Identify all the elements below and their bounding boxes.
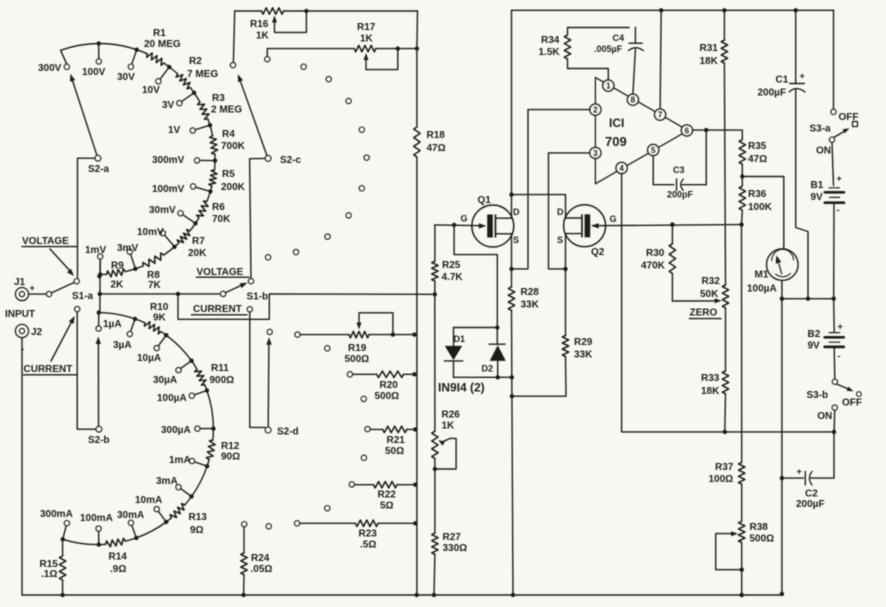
svg-text:OFF: OFF [842,398,862,409]
svg-text:1: 1 [606,82,611,91]
svg-text:R18: R18 [427,130,446,141]
svg-text:OFF: OFF [839,112,859,123]
wire Q1 drain to V+ rail [511,10,513,218]
label resistor R1 [144,28,181,50]
svg-text:R33: R33 [701,373,720,384]
switch S3-a [810,10,859,156]
svg-text:VOLTAGE: VOLTAGE [197,267,244,278]
wire V+ top rail [512,8,834,12]
svg-text:R16: R16 [250,19,269,30]
node / switch contact 10V [142,65,172,96]
resistor R25 4.7K [432,225,464,294]
node / switch contact 300µA [161,425,216,436]
svg-text:50K: 50K [700,289,719,300]
node / switch contact 300mV [152,155,217,166]
svg-text:1V: 1V [168,125,181,136]
svg-text:2K: 2K [111,280,125,291]
wire IC pin 1 to R34 [568,59,609,80]
svg-text:G: G [461,214,468,224]
label IN914 (2) [438,381,485,395]
wire Q1 source [509,234,513,271]
svg-text:R26: R26 [442,410,461,421]
rotary switch S2-b wiper [88,337,110,447]
svg-text:20K: 20K [188,248,207,259]
svg-text:R36: R36 [748,189,767,200]
svg-text:R28: R28 [521,287,540,298]
label CURRENT right [192,304,248,315]
resistor R38 500 ohm pot [716,521,775,597]
resistor R15 .1 ohm [40,539,66,595]
svg-text:-: - [838,351,841,361]
wire Q2 source [563,234,567,271]
svg-text:R9: R9 [111,261,124,272]
wire IC pin 2 [528,109,590,111]
svg-text:R3: R3 [212,93,225,104]
wire Q1 gate to diode clamp [454,225,499,330]
svg-text:R22: R22 [378,490,397,501]
svg-text:10µA: 10µA [137,353,161,364]
svg-text:47Ω: 47Ω [748,154,767,165]
svg-text:R29: R29 [574,337,593,348]
svg-text:R23: R23 [359,529,378,540]
svg-text:R32: R32 [702,276,721,287]
wire main input bus [100,292,437,320]
IC1 pin 5 [648,144,659,155]
resistor R16 1K pot [250,8,309,42]
resistor R22 5 ohm [355,482,418,512]
rotary switch S2-c contact arc [230,57,369,261]
svg-text:R14: R14 [109,552,128,563]
switch S1-a [46,279,93,312]
svg-text:R6: R6 [212,202,225,213]
wire S1-a current contact to S2-b [77,312,96,429]
svg-text:IN9I4 (2): IN9I4 (2) [438,381,485,395]
resistor R28 33K [508,269,539,377]
svg-text:R2: R2 [189,56,202,67]
svg-text:10mA: 10mA [135,495,162,506]
transistor Q2 [557,205,617,258]
svg-text:6: 6 [685,126,690,135]
svg-text:500Ω: 500Ω [345,354,370,365]
svg-text:10mV: 10mV [137,227,164,238]
svg-text:470K: 470K [641,261,666,272]
resistor R35 47 ohm [739,130,767,179]
svg-text:R17: R17 [357,22,376,33]
svg-text:700K: 700K [221,141,246,152]
svg-text:S: S [513,235,519,245]
resistor R18 47 ohm [414,127,446,157]
svg-text:R11: R11 [211,363,229,374]
wire S2-c 100V contact to R17 line [266,49,268,57]
wire S2-a to S1-a voltage contact [78,158,95,278]
svg-text:ON: ON [817,411,832,422]
node / switch contact 1µA [96,310,122,331]
svg-text:9V: 9V [811,192,824,203]
svg-text:300mV: 300mV [152,155,185,166]
svg-text:-: - [837,205,840,215]
svg-text:900Ω: 900Ω [210,375,235,386]
wire S2-c 300V contact to R16 line [233,11,234,62]
svg-text:500Ω: 500Ω [375,391,400,402]
svg-text:.9Ω: .9Ω [110,564,126,575]
svg-text:Q1: Q1 [478,195,492,206]
svg-text:5: 5 [651,146,656,155]
svg-text:D2: D2 [482,364,494,374]
node / switch contact 100mA [80,513,113,547]
svg-text:S: S [557,235,563,245]
svg-text:R5: R5 [222,169,235,180]
svg-text:1K: 1K [442,421,456,432]
rotary switch S2-d wiper [265,337,299,437]
meter M1 100uA [747,249,798,295]
svg-text:R10: R10 [150,302,169,313]
resistor R17 1K pot [354,22,398,70]
resistor R21 50 ohm [370,426,417,457]
node / switch contact 10mV [137,227,177,249]
label resistor R2 [187,56,218,80]
rotary switch S2-c wiper [238,74,302,166]
battery B1 9V [811,143,844,299]
wire IC pin 7 to V+ rail [659,8,663,109]
svg-text:R7: R7 [192,236,205,247]
svg-text:300V: 300V [38,63,62,74]
svg-text:VOLTAGE: VOLTAGE [22,236,69,247]
svg-text:100µA: 100µA [747,284,777,295]
node / switch contact 300V [38,50,70,74]
resistor R34 1.5K [539,28,630,59]
node / switch contact 3µA [113,317,137,351]
label resistor R6 [212,202,231,225]
wire top attenuator line [235,10,418,12]
svg-text:R21: R21 [387,435,406,446]
svg-text:300µA: 300µA [161,425,191,436]
svg-text:ICI: ICI [609,116,624,130]
svg-text:+: + [800,71,805,81]
svg-text:.5Ω: .5Ω [360,540,376,551]
svg-text:C4: C4 [613,33,625,43]
IC1 pin 7 [654,109,665,120]
current shunt arc R10-R14 [63,313,216,547]
svg-text:90Ω: 90Ω [221,452,240,463]
wire IC pin 5 to C3 [653,156,674,185]
node / switch contact 100mV [152,184,213,195]
svg-text:S2-d: S2-d [277,427,299,438]
svg-text:9K: 9K [153,313,167,324]
svg-text:S3-a: S3-a [810,124,832,135]
svg-text:C2: C2 [805,489,818,500]
svg-text:70K: 70K [212,214,231,225]
svg-text:S2-a: S2-a [88,164,110,175]
wire Q1 source to IC pin 2 [512,110,529,269]
wire S1-b current contact to S2-d [250,312,265,427]
node / switch contact 30mV [149,205,198,226]
wire R28 line to bottom rail [510,377,516,597]
svg-text:200µF: 200µF [796,499,825,510]
svg-text:709: 709 [605,134,627,149]
label resistor R10 [150,302,169,324]
capacitor C3 200pF [667,165,706,200]
svg-text:R4: R4 [222,129,235,140]
svg-text:300mA: 300mA [40,509,73,520]
node / switch contact 1mV [85,245,106,277]
resistor R30 470K [641,222,676,301]
capacitor C2 200uF [780,432,834,510]
svg-text:330Ω: 330Ω [443,543,468,554]
label resistor R9 [111,261,125,291]
resistor R27 330 ohm [432,469,468,595]
label resistor R4 [221,129,246,152]
capacitor C1 200uF [758,10,809,298]
svg-text:D: D [557,207,564,217]
svg-text:R38: R38 [750,522,769,533]
wire diode bottoms to R28 line [454,375,515,379]
svg-text:R13: R13 [189,512,208,523]
resistor R29 33K [512,269,593,396]
wire Q1 gate [435,223,486,229]
resistor R31 18K [700,8,728,285]
svg-text:INPUT: INPUT [5,309,35,320]
svg-text:100µA: 100µA [157,393,187,404]
wire Q2 gate [591,222,744,228]
resistor R33 18K [701,308,729,432]
jack J2 [15,324,42,355]
jack J1 [14,277,35,301]
svg-text:S3-b: S3-b [807,390,829,401]
resistor R23 .5 ohm [300,520,418,550]
node / switch contact 100µA [157,388,209,404]
svg-text:30mV: 30mV [149,205,176,216]
svg-text:7K: 7K [148,280,162,291]
rotary switch S2-d contact arc [242,329,371,529]
wire R17 line [267,46,419,50]
IC1 pin 2 [590,104,601,115]
svg-text:1mV: 1mV [85,245,106,256]
battery B2 9V [808,299,844,379]
svg-text:30V: 30V [117,72,135,83]
wire M1 minus and mid rail [780,281,836,594]
svg-text:100mA: 100mA [80,513,113,524]
wire meter feed [742,177,784,249]
svg-text:R25: R25 [442,260,461,271]
node / switch contact 30µA [153,359,194,387]
resistor R20 500 ohm [353,371,417,402]
svg-text:M1: M1 [755,270,769,281]
svg-text:18K: 18K [701,386,720,397]
svg-text:S2-b: S2-b [88,435,110,446]
svg-text:CURRENT: CURRENT [193,304,242,315]
svg-text:G: G [610,214,617,224]
svg-text:J1: J1 [14,277,26,288]
svg-text:2 MEG: 2 MEG [211,105,242,116]
node / switch contact 10mA [135,495,168,524]
transistor Q1 [461,195,521,247]
svg-text:200µF: 200µF [758,88,787,99]
svg-text:D: D [513,207,520,217]
svg-text:+: + [30,283,35,293]
wire IC pin 4 to negative rail [622,174,837,434]
svg-text:1K: 1K [256,31,270,42]
svg-text:S2-c: S2-c [280,155,302,166]
label INPUT [5,309,35,320]
svg-text:2: 2 [593,106,598,115]
svg-text:CURRENT: CURRENT [24,364,73,375]
svg-text:33K: 33K [521,300,540,311]
label CURRENT left with arrow [24,316,78,375]
svg-text:S1-b: S1-b [247,292,269,303]
svg-text:R1: R1 [153,28,166,39]
diode D1 [444,328,497,378]
svg-text:4.7K: 4.7K [442,272,464,283]
node / switch contact 3V [162,91,196,111]
svg-text:9Ω: 9Ω [190,525,204,536]
svg-text:1µA: 1µA [103,319,122,330]
switch S3-b [807,379,863,430]
capacitor C4 .005uF [594,28,643,95]
label resistor R13 [189,512,208,536]
svg-text:1K: 1K [360,34,374,45]
wire middle rail [416,11,419,595]
svg-text:30µA: 30µA [153,375,177,386]
node / switch contact 3mV [117,243,138,271]
resistor R26 1K pot [432,294,461,471]
svg-text:S1-a: S1-a [72,291,94,302]
IC1 pin 3 [590,147,601,158]
svg-text:B2: B2 [808,329,821,340]
IC1 pin 6 [681,125,692,136]
label resistor R7 [188,236,207,259]
svg-text:R20: R20 [380,380,399,391]
svg-text:J2: J2 [31,327,43,338]
wire J2 to bottom rail [21,338,23,595]
svg-text:8: 8 [631,96,636,105]
switch S1-b [220,279,268,312]
svg-text:C3: C3 [673,165,685,175]
svg-text:3V: 3V [162,100,175,111]
resistor R37 100 ohm [709,462,745,521]
svg-text:7 MEG: 7 MEG [187,69,218,80]
svg-text:30mA: 30mA [117,510,144,521]
label resistor R11 [210,363,235,386]
svg-text:R37: R37 [715,462,734,473]
wire J1 to S1-a pole [29,293,47,295]
node / switch contact 100V [82,41,106,78]
wire S1-b voltage contact to S2-c wiper [250,158,266,278]
svg-text:3mA: 3mA [156,476,178,487]
svg-text:50Ω: 50Ω [385,446,404,457]
IC1 pin 1 [603,80,614,91]
svg-text:C1: C1 [776,75,789,86]
svg-text:3mV: 3mV [117,243,138,254]
svg-text:20 MEG: 20 MEG [144,39,181,50]
svg-text:R12: R12 [221,441,240,452]
svg-text:D1: D1 [454,334,466,344]
node / switch contact 10µA [137,333,168,364]
label resistor R14 [109,552,128,576]
svg-text:+: + [838,322,843,332]
node / switch contact 300mA [40,509,73,542]
label resistor R8 [147,270,162,291]
svg-text:10V: 10V [142,85,160,96]
wire IC pin 6 output [693,129,743,131]
svg-text:+: + [837,174,842,184]
resistor R36 100K [739,177,773,225]
resistor R24 .05 ohm [241,527,273,597]
svg-text:7: 7 [658,111,663,120]
svg-text:9V: 9V [808,341,821,352]
svg-text:33K: 33K [574,350,593,361]
svg-text:+: + [797,467,802,477]
svg-text:3µA: 3µA [113,340,132,351]
svg-text:18K: 18K [700,56,719,67]
resistor R32 50K pot ZERO [672,276,728,319]
wire R36 line down to R37 [741,225,743,463]
label VOLTAGE right [197,267,250,278]
svg-text:3: 3 [593,149,598,158]
wire Q2 drain to Q1 drain riser [509,192,565,218]
svg-text:R30: R30 [646,248,665,259]
svg-text:ON: ON [816,146,831,157]
wire bottom rail [22,592,784,598]
svg-text:.1Ω: .1Ω [41,569,57,580]
svg-text:4: 4 [619,164,624,173]
svg-text:1.5K: 1.5K [539,47,561,58]
svg-text:R31: R31 [700,43,719,54]
svg-text:100V: 100V [82,67,106,78]
svg-text:R19: R19 [348,343,367,354]
resistor R19 500 ohm pot [300,313,416,365]
svg-text:R34: R34 [541,35,560,46]
op-amp IC1 709 triangle [595,77,688,183]
node / switch contact 1mA [169,455,209,468]
IC1 pin 4 [616,162,627,173]
node / switch contact 30V [117,48,139,84]
svg-text:200pF: 200pF [667,190,694,200]
svg-text:500Ω: 500Ω [750,534,775,545]
wire IC pin 3 [549,152,590,154]
IC1 pin 8 [627,94,638,105]
svg-text:47Ω: 47Ω [427,143,446,154]
svg-text:ZERO: ZERO [690,308,718,319]
svg-text:100K: 100K [748,202,773,213]
rotary switch S2-a wiper [70,74,110,175]
wire 1mV node to current arc [97,261,102,311]
diode D2 [482,328,506,378]
svg-text:B1: B1 [811,180,824,191]
svg-text:100Ω: 100Ω [709,474,734,485]
label resistor R3 [211,93,242,116]
wire Q2 source to IC pin 3 [549,153,566,269]
label resistor R5 [221,169,246,193]
label VOLTAGE left with arrow [22,236,77,276]
svg-text:Q2: Q2 [591,247,605,258]
svg-text:.005µF: .005µF [594,44,623,54]
svg-text:1mA: 1mA [169,455,191,466]
node / switch contact 30mA [117,510,144,540]
svg-text:100mV: 100mV [152,184,185,195]
node / switch contact 1V [168,123,212,136]
node / switch contact 3mA [156,476,194,499]
svg-text:R27: R27 [443,532,462,543]
svg-text:R24: R24 [251,553,270,564]
voltage divider arc R1-R9 [61,43,218,276]
label resistor R12 [221,441,240,463]
svg-text:200K: 200K [221,182,246,193]
svg-text:R35: R35 [748,141,767,152]
svg-text:5Ω: 5Ω [380,501,394,512]
svg-text:.05Ω: .05Ω [251,564,273,575]
wire C3 to output [704,128,708,185]
